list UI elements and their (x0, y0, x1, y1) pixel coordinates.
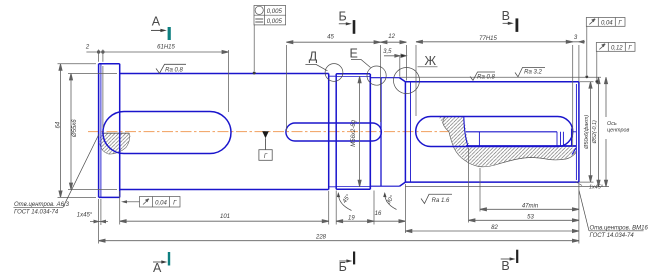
FCF radial runout 0.04 (top right) (586, 18, 625, 76)
section label B (bottom) (339, 252, 356, 275)
svg-text:0,12: 0,12 (611, 46, 623, 52)
svg-text:0,04: 0,04 (155, 201, 167, 207)
keyway slot 2 (77H15) (416, 117, 573, 147)
surface finish Ra 0.8 (section 3) (470, 72, 495, 80)
svg-text:Ø55к6: Ø55к6 (72, 119, 78, 138)
svg-text:центров: центров (607, 128, 629, 134)
svg-text:Ra 0.8: Ra 0.8 (165, 68, 183, 74)
svg-text:1х45°: 1х45° (77, 212, 93, 218)
svg-text:47min: 47min (522, 203, 539, 209)
FCF radial runout 0.04 (bottom left) (124, 197, 181, 208)
svg-text:А: А (153, 261, 162, 275)
chamfer into section 3 (400, 78, 406, 187)
dim O64 (left, flange) (60, 64, 62, 198)
dim 3.5 (chamfer length) (384, 55, 406, 57)
svg-text:1х45°: 1х45° (589, 184, 604, 190)
svg-text:Е: Е (350, 47, 358, 61)
svg-text:53: 53 (527, 214, 534, 220)
dim 77H15 / 3 (top right) (416, 41, 585, 43)
svg-text:Отв.центров. ВМ16: Отв.центров. ВМ16 (590, 226, 649, 232)
svg-text:М56х2-6g: М56х2-6g (351, 119, 357, 146)
svg-text:ГОСТ 14.034-74: ГОСТ 14.034-74 (14, 210, 59, 216)
surface finish Ra 0.8 (section 1) (156, 64, 186, 73)
svg-text:77Н15: 77Н15 (479, 36, 497, 42)
dimension texts (56, 34, 630, 240)
svg-text:2: 2 (85, 44, 90, 50)
FCF radial runout 0.12 (top right, lower) (596, 43, 635, 81)
dim 47min (480, 208, 579, 210)
groove A at thread start (329, 74, 337, 190)
svg-text:0,04: 0,04 (601, 21, 613, 27)
section label A (top) with cutting-plane stroke (151, 14, 171, 40)
section label A (bottom) (153, 252, 170, 275)
thread end vertical (369, 74, 371, 189)
svg-text:Б: Б (339, 260, 347, 274)
svg-text:Ось: Ось (607, 121, 617, 127)
wavy break line (443, 117, 576, 167)
svg-text:61Н15: 61Н15 (157, 44, 175, 50)
dim O50 (right) (590, 82, 592, 182)
keyway slot middle (45) (286, 123, 382, 141)
svg-text:0,005: 0,005 (267, 9, 283, 15)
svg-text:3,5: 3,5 (383, 49, 392, 55)
dim O55 (left, section 1) (70, 74, 72, 190)
section 3 O50 (405, 82, 579, 182)
dim 45 / 12 (top middle) (286, 41, 406, 43)
thread minor lines (thin) (336, 76, 370, 186)
groove B right wall (380, 78, 382, 187)
svg-text:В: В (501, 259, 509, 273)
svg-text:101: 101 (220, 214, 230, 220)
keyway slot 1 (61H15) (103, 112, 231, 154)
dim axis (far right) (605, 77, 607, 186)
dim 228 (99, 240, 579, 242)
dimension lines with arrowheads (59, 40, 608, 242)
flange O64 (99, 64, 120, 198)
svg-text:16: 16 (375, 211, 382, 217)
svg-text:0,005: 0,005 (267, 19, 283, 25)
right chamfer 1x45 leader (576, 182, 583, 186)
svg-text:12: 12 (388, 34, 395, 40)
dim 53 (469, 219, 579, 221)
left cutaway hatch (centre hole A6.3 section) (100, 133, 131, 155)
centerline (shaft axis, orange dash-dot) (88, 131, 449, 133)
section label V (bottom) (501, 250, 519, 273)
svg-text:Ø52(-0,1): Ø52(-0,1) (592, 120, 598, 144)
surface finish Ra 1.6 (bottom, section 3) (421, 194, 452, 203)
right cutaway hatch (centre hole M16 section) (439, 117, 576, 167)
svg-text:В: В (502, 9, 510, 23)
section 2 thread M56x2 major lines (336, 74, 370, 190)
detail circle D (305, 64, 343, 82)
svg-text:Ж: Ж (425, 54, 437, 68)
svg-text:82: 82 (491, 225, 498, 231)
svg-text:Д: Д (309, 50, 318, 64)
extension lines (thin grey) (58, 45, 610, 244)
neck before section 3 (370, 78, 399, 187)
svg-text:Отв.центров. А6,3: Отв.центров. А6,3 (14, 202, 70, 208)
svg-text:Ra 0.8: Ra 0.8 (477, 75, 495, 81)
svg-text:Ra 1.6: Ra 1.6 (432, 198, 450, 204)
svg-text:Ra 3.2: Ra 3.2 (524, 70, 542, 76)
detail circle Zh (394, 67, 438, 94)
chamfer angle callout 45 deg (338, 194, 351, 211)
centre hole note (right): leader and text (579, 191, 644, 231)
svg-text:Ø50к6(факт): Ø50к6(факт) (584, 115, 590, 150)
svg-text:Б: Б (339, 9, 347, 23)
section 1 O55 (120, 74, 329, 190)
svg-text:А: А (152, 14, 161, 28)
dim 19 (336, 220, 374, 222)
svg-text:19: 19 (348, 215, 355, 221)
dim 1x45 (left chamfer) (90, 221, 108, 223)
datum G (on axis) (259, 131, 272, 160)
dim 16 (374, 220, 405, 222)
dim 82 (405, 230, 579, 232)
shaft outline (blue) (99, 64, 579, 198)
centre hole note (left): leader and text (14, 134, 100, 207)
dim 101 (120, 220, 329, 222)
dim M56x2-6g (vertical through thread) (359, 76, 361, 186)
dim O52 (right) (598, 77, 600, 186)
section label V (top) (502, 9, 519, 32)
svg-text:64: 64 (56, 121, 62, 128)
svg-text:ГОСТ 14.034-74: ГОСТ 14.034-74 (590, 233, 635, 239)
chamfer angle callout 30 deg (385, 194, 397, 210)
surface finish Ra 3.2 (keyway area) (515, 68, 545, 77)
feature control frame (roundness / straightness 0.005) (254, 6, 286, 72)
section label B (top) (339, 9, 356, 34)
svg-text:45: 45 (327, 35, 334, 41)
dim 2 / 61H15 (top left) (86, 51, 228, 53)
centre hole M16 interior detail (464, 117, 577, 155)
detail circle E (351, 60, 386, 86)
svg-text:228: 228 (315, 235, 327, 241)
